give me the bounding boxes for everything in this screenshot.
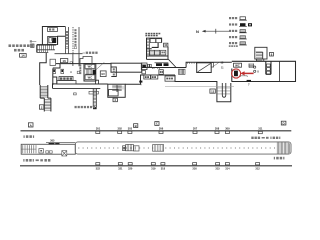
black box on bottom edge [139,81,142,83]
boxed D [281,121,286,125]
svg-text:321: 321 [118,167,123,171]
svg-text:WC: WC [235,63,240,67]
svg-text:305: 305 [50,139,55,143]
left sub platform [21,144,75,154]
small room left of 16 [50,59,55,65]
svg-text:EV: EV [101,72,105,76]
direction texts row2 left [23,159,50,162]
svg-text:WC: WC [88,76,93,80]
black box 7 [247,80,251,82]
boxed A [28,123,33,127]
boxed C [155,122,159,126]
boxes row1 [150,39,155,43]
svg-text:319: 319 [151,167,156,171]
big room top-center [111,63,142,72]
ladder 2 [44,100,51,111]
svg-text:315: 315 [215,167,220,171]
lower labels [96,167,261,171]
white box with black box near x143 [141,63,147,74]
svg-text:306: 306 [159,126,164,130]
room above WC [80,57,92,65]
X escalator box [62,151,67,156]
svg-text:314: 314 [225,167,230,171]
main platform [75,142,291,154]
bottom edge center [125,75,175,84]
red arrow [244,72,254,74]
WC label box [48,28,58,32]
svg-text:N: N [196,29,199,34]
black ad boxes below cluster [156,63,162,66]
WC label blobs [49,28,54,40]
stair box inner [48,36,58,44]
ticket office room with diagonal [197,63,212,73]
diagonal entrance connector [168,59,176,67]
svg-text:320: 320 [128,167,133,171]
top edge seg D raised [186,62,232,67]
dots [78,148,275,149]
svg-text:303: 303 [128,126,133,130]
svg-text:309: 309 [225,126,230,130]
circled position black box [234,71,238,77]
svg-text:16: 16 [62,59,66,63]
stair hatch row2 [38,50,48,52]
bus area text [75,106,96,108]
upper labels [96,126,263,130]
track line 1 [21,130,292,132]
svg-text:D: D [283,121,285,125]
fare gates mid [179,69,186,74]
boxed B [134,124,138,128]
direction texts row1 [24,135,35,138]
svg-text:B: B [135,124,137,128]
box 14 [20,54,27,58]
gate ticks on seg C [152,62,196,69]
kiosk boxes on platform [126,144,164,151]
svg-text:307: 307 [193,126,198,130]
annex box + leader 18 [211,63,213,67]
svg-text:312: 312 [255,167,260,171]
box 3 [210,89,215,93]
escalator marks [148,64,150,67]
red circle [232,69,241,78]
box on platform [123,146,126,151]
EV box [100,71,106,77]
narrow shaft room [111,67,116,77]
boxes row2 [150,50,154,55]
svg-text:WC: WC [88,65,93,69]
3 squares column [267,64,271,74]
icons [239,17,252,45]
fire phone icons [53,69,64,73]
small stairs right of WC [249,64,254,68]
vertical text col1 [66,31,68,49]
svg-text:316: 316 [192,167,197,171]
track line 2 [20,165,292,167]
top edge seg A [56,63,111,65]
bench [240,76,247,77]
vertical text col2 [74,29,76,48]
NO. text [70,71,72,73]
fare machines boxes [57,75,175,84]
svg-text:13: 13 [211,89,214,93]
svg-text:322: 322 [96,167,101,171]
lower ad boxes [96,163,260,165]
EV box center [159,70,163,75]
svg-text:302: 302 [118,126,123,130]
svg-text:14: 14 [21,54,25,58]
WC label right [234,63,242,67]
ladder [147,38,150,56]
stair hatch row1 [37,45,55,53]
tiny box on edge [70,62,72,64]
top edge seg B [141,67,186,69]
svg-text:301: 301 [96,126,101,130]
a label [77,71,79,73]
partitions right [266,61,271,74]
bus structures on wall [74,93,77,95]
svg-text:311: 311 [258,126,263,130]
upper ad boxes [96,131,262,134]
tiny 2-line text above [145,33,160,37]
svg-text:10: 10 [164,43,167,47]
bus stair ladder [93,89,96,107]
thick concourse line [37,44,56,46]
box 2 [39,105,43,109]
left bottom walls [53,77,108,84]
door step left [31,44,34,47]
right end stairs [277,142,289,154]
stairs text [83,52,86,54]
ladder 1 [40,87,51,111]
box 16 [60,59,67,63]
direction texts row2 right [274,157,285,160]
svg-text:318: 318 [161,167,166,171]
room outline [42,27,65,45]
svg-text:308: 308 [215,126,220,130]
pillars circles [254,66,256,68]
